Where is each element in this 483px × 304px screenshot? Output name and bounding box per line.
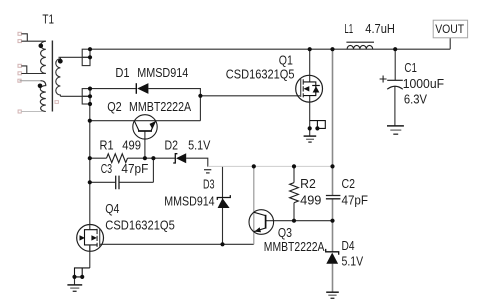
svg-text:499: 499 [122,138,141,153]
MOSFET Q4 [77,225,104,252]
node Q1 pad mid [315,126,319,130]
svg-text:C1: C1 [404,60,417,75]
T1 pin 5 [18,79,21,82]
wire T1 pin3 lead [21,66,26,74]
wire secondary top to header [59,56,91,58]
wire top bus [90,48,450,50]
svg-text:MMBT2222A: MMBT2222A [264,239,325,254]
node light bus y=166 [208,165,333,167]
svg-text:MMSD914: MMSD914 [164,194,214,209]
node C2 bottom [330,219,334,223]
wire Q1 drain [309,49,311,82]
T1 primary winding upper [41,41,46,73]
resistor R1 [107,154,128,163]
inductor L1 [346,42,374,49]
svg-text:47pF: 47pF [121,161,148,176]
T1 primary upper dot [39,44,44,49]
wire T1 pin1 lead [21,34,27,41]
transistor Q2 [133,115,157,139]
svg-text:47pF: 47pF [342,193,369,208]
diode D1 [136,83,148,94]
wire T1 pin4 lead [21,73,45,75]
connector header JP2 [82,89,90,104]
svg-text:5.1V: 5.1V [342,253,364,268]
wire T1 pin2 lead [21,40,45,42]
wire Q1 gate net [200,95,301,97]
node JP2 bottom [88,102,92,106]
svg-text:C3: C3 [101,161,112,176]
T1 primary lower dot [38,84,43,89]
node JP2 top [88,87,92,91]
Q1 shorted pins pad [310,121,326,129]
svg-text:1000uF: 1000uF [403,76,444,91]
wire C1 top [394,49,396,80]
ground under D4 [326,292,339,298]
T1 primary winding lower [40,81,46,112]
wire D1 cathode net [90,88,136,90]
node Q2 net left [88,119,92,123]
VOUT port box [433,20,467,38]
node R1 left [88,156,92,160]
transistor Q3 [249,210,274,235]
wire main output bus x=332.5 [332,49,334,292]
svg-text:L1: L1 [344,21,353,36]
wire R1 net left [90,157,107,159]
transformer T1 core [51,41,53,112]
svg-text:Q1: Q1 [279,53,293,68]
node Q4 pad left [72,275,76,279]
T1 pin 4 [18,72,21,75]
node JP1 mid [88,55,92,59]
svg-text:5.1V: 5.1V [188,138,211,153]
node Q4 pad mid [80,275,84,279]
wire Q3 through line [253,166,255,244]
wire D1 anode to corner [149,89,201,121]
MOSFET Q1 [296,75,323,102]
wire R2 stubs [293,166,295,220]
svg-text:R1: R1 [100,138,114,153]
capacitor C1 [380,76,403,90]
wire C3 riser [152,158,154,182]
svg-text:MMSD914: MMSD914 [137,65,188,80]
node gate branch [198,94,202,98]
ground under C1 [387,126,404,134]
svg-text:D2: D2 [165,138,179,153]
wire Q2 collector-emitter net [90,120,201,122]
wire Q3 base net [266,220,333,222]
wire Q4 gate net [100,243,254,245]
capacitor C2 [326,196,341,199]
zener D3 [217,195,230,208]
svg-text:T1: T1 [42,12,54,27]
wire R1 net right [128,157,176,159]
T1 pin 7 [55,101,58,104]
svg-text:R2: R2 [300,176,316,191]
T1 pin 6 [18,110,21,113]
node Q2 base [143,156,147,160]
node R2 bottom [292,219,296,223]
T1 pin 3 [18,64,21,67]
Q4 shorted pins pad [75,268,90,277]
node Q1 drain branch [308,47,312,51]
svg-text:D1: D1 [115,65,129,80]
svg-text:6.3V: 6.3V [404,91,427,106]
svg-text:VOUT: VOUT [435,24,464,36]
T1 pin 2 [18,40,21,43]
connector header JP1 [82,49,90,65]
svg-text:D3: D3 [203,177,215,192]
ground under Q1 [304,136,317,142]
svg-text:Q4: Q4 [105,201,119,216]
node R2 top [292,164,296,168]
node Q1 pad left [308,126,312,130]
node D3 bottom [220,242,224,246]
svg-text:CSD16321Q5: CSD16321Q5 [226,67,295,82]
T1 pin 1 [18,32,21,35]
svg-text:MMBT2222A: MMBT2222A [129,99,191,114]
node C3 left [88,180,92,184]
node C1 branch [393,47,397,51]
T1 secondary winding [56,57,61,96]
svg-text:D4: D4 [342,238,355,253]
ground under Q4 [67,285,82,291]
svg-text:C2: C2 [342,176,356,191]
svg-text:Q2: Q2 [107,99,122,114]
resistor R2 [290,183,299,203]
svg-text:499: 499 [300,193,321,208]
small ground at D2 anode [204,170,211,173]
capacitor C3 [116,176,119,190]
wire D3 branch [222,166,224,244]
wire C3 net [90,181,154,183]
wire T1 pin6 lead [21,111,43,113]
wire C1 bottom [394,86,396,125]
wire left bus [89,104,91,225]
wire Q2 base lead [144,131,146,158]
wire Q1 source [309,96,311,136]
node JP1 top [88,47,92,51]
svg-text:4.7uH: 4.7uH [365,21,395,36]
wire T1 pin5 lead [20,80,41,82]
zener D4 [326,249,339,264]
zener D2 [173,153,186,163]
node C3 riser top [151,156,155,160]
svg-text:Q3: Q3 [278,225,292,240]
node JP2 mid [88,94,92,98]
node Q3 collector top [252,164,256,168]
wire secondary bottom to header [60,95,90,97]
node C2 top [330,164,334,168]
wire D2 anode [186,158,208,167]
T1 secondary dot [58,59,63,64]
wire VOUT riser [449,38,451,49]
wire Q4 source [89,245,91,268]
node bus top [330,47,334,51]
wire Q4 pad drop [74,277,76,285]
svg-text:CSD16321Q5: CSD16321Q5 [105,217,175,232]
